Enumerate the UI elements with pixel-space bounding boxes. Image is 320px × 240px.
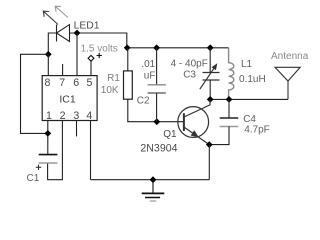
svg-text:4.7pF: 4.7pF [244, 124, 270, 135]
svg-text:C3: C3 [183, 70, 196, 81]
op-amp IC1 body [42, 76, 97, 121]
svg-text:C4: C4 [243, 114, 256, 125]
svg-text:2N3904: 2N3904 [140, 143, 177, 155]
svg-text:uF: uF [144, 71, 156, 82]
svg-text:L1: L1 [241, 59, 253, 70]
wire LED anode to top rail corner [70, 33, 127, 48]
wire pin 8 [47, 54, 49, 76]
svg-text:5: 5 [86, 77, 92, 89]
svg-text:0.1uH: 0.1uH [239, 74, 266, 85]
wire left rail [21, 54, 49, 133]
wire R1 top [127, 48, 129, 71]
wire pin 7 stub [62, 64, 64, 76]
transistor Q1 [178, 99, 210, 144]
node C3 / Q1 collector [207, 96, 214, 103]
variable capacitor C3 [200, 63, 220, 89]
battery positive terminal [88, 53, 102, 61]
capacitor C4 [220, 118, 239, 127]
wire C4 top [228, 99, 230, 118]
capacitor C2 [148, 85, 166, 93]
top rail wire [127, 47, 229, 49]
wire pin 1 to C1 top [47, 121, 49, 155]
node rail / R1 [124, 44, 131, 51]
wire C2 top [156, 48, 158, 85]
svg-text:7: 7 [59, 77, 65, 89]
wire pin 5 [90, 61, 92, 76]
svg-text:IC1: IC1 [59, 93, 76, 105]
bottom tank rail [210, 98, 288, 100]
svg-text:LED1: LED1 [74, 20, 100, 31]
node ground rail [150, 176, 157, 183]
wire C2 bottom [156, 93, 158, 122]
svg-text:C2: C2 [137, 96, 150, 107]
LED1 diode symbol [57, 25, 70, 42]
node LED anode / pin6 [74, 30, 81, 37]
svg-text:Antenna: Antenna [271, 51, 309, 62]
resistor R1 [124, 71, 133, 99]
capacitor C1 [36, 155, 58, 170]
node emitter / C4 [206, 141, 213, 148]
wire pin 4 [90, 121, 92, 180]
wire pin 6 [76, 33, 78, 76]
wire emitter to ground rail [208, 145, 210, 180]
svg-text:6: 6 [73, 77, 79, 89]
svg-text:Q1: Q1 [163, 129, 177, 140]
svg-text:1.5 volts: 1.5 volts [81, 44, 118, 55]
svg-text:8: 8 [45, 77, 51, 89]
ground rail [91, 179, 210, 181]
inductor L1 [229, 48, 234, 100]
wire pin 2 to C1 bottom [48, 121, 63, 180]
svg-text:10K: 10K [101, 85, 119, 96]
wire pin 3 stub [76, 121, 78, 137]
svg-text:4: 4 [86, 110, 92, 122]
wire R1 bottom to Q1 base [128, 99, 184, 122]
svg-text:4 - 40pF: 4 - 40pF [171, 58, 208, 69]
node C2 / base wire [153, 118, 160, 125]
svg-text:.01: .01 [141, 59, 155, 70]
node pin8 / rail / LED junction [45, 51, 52, 58]
ground [142, 180, 165, 201]
svg-text:C1: C1 [27, 173, 40, 184]
svg-text:2: 2 [60, 110, 66, 122]
node rail / pin1 / C1 [44, 130, 51, 137]
wire C3 bottom [209, 80, 211, 99]
node rail / C3 [207, 44, 214, 51]
wire LED cathode to left rail [48, 33, 57, 54]
wire C3 top [209, 48, 211, 73]
node rail / C2 [153, 44, 160, 51]
LED1 light emission arrow 1 [43, 11, 58, 24]
wire C4 bottom to emitter node [209, 127, 229, 145]
antenna [275, 67, 300, 99]
node L1 / C4 [226, 96, 233, 103]
svg-text:1: 1 [46, 110, 52, 122]
svg-text:R1: R1 [107, 73, 120, 84]
LED1 light emission arrow 2 [55, 6, 68, 17]
svg-text:3: 3 [73, 110, 79, 122]
